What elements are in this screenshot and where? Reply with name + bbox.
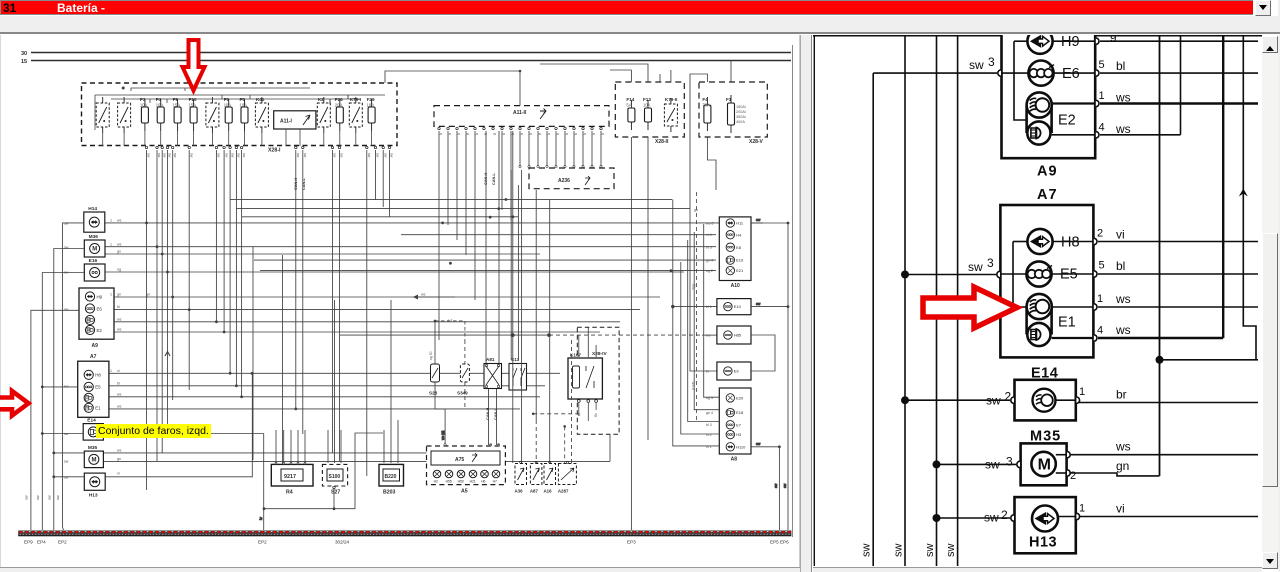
svg-text:H13: H13 xyxy=(1029,535,1057,551)
svg-text:sw: sw xyxy=(756,442,761,446)
labels sw3 / colors at A9 xyxy=(969,28,1131,136)
indicator H13 xyxy=(1011,497,1085,553)
svg-text:H21: H21 xyxy=(470,480,476,484)
svg-text:g: g xyxy=(538,133,542,135)
svg-text:CAN-L: CAN-L xyxy=(302,178,306,190)
svg-text:ws: ws xyxy=(117,219,122,223)
gray strip under title xyxy=(0,16,1280,32)
svg-text:bl: bl xyxy=(706,370,709,374)
wire ws pin1 E1 xyxy=(1098,306,1258,308)
wire (X28-II feeds) xyxy=(540,64,671,530)
svg-text:sw: sw xyxy=(340,153,344,158)
svg-text:bl: bl xyxy=(1116,259,1125,273)
fuse F1 xyxy=(726,95,747,133)
svg-text:3: 3 xyxy=(987,256,994,270)
wire (A11-II to A236 verticals) xyxy=(519,131,602,168)
svg-text:10A: 10A xyxy=(643,103,651,108)
svg-text:g: g xyxy=(583,133,587,135)
svg-text:g: g xyxy=(466,133,470,135)
headlamp E1 in A7 xyxy=(1027,294,1095,346)
wire sw3 to M35 xyxy=(933,460,1017,468)
svg-text:K79-I: K79-I xyxy=(350,97,361,102)
indicator H8 in A7 xyxy=(1013,229,1095,307)
svg-text:5: 5 xyxy=(1099,59,1105,71)
svg-text:A236: A236 xyxy=(558,178,570,184)
svg-text:B220: B220 xyxy=(385,474,397,480)
wire ge from H9 xyxy=(1100,40,1258,42)
resistor R4 (9217) xyxy=(271,464,313,495)
svg-text:E18: E18 xyxy=(736,410,744,415)
svg-text:1: 1 xyxy=(110,242,112,246)
wire (X28-V feeds) xyxy=(690,61,731,209)
svg-text:E20: E20 xyxy=(736,396,744,401)
right vertical scrollbar xyxy=(1262,36,1278,566)
svg-text:S28: S28 xyxy=(429,391,438,396)
fuse F9 15A xyxy=(173,97,182,131)
svg-text:10A: 10A xyxy=(140,103,148,108)
svg-text:1: 1 xyxy=(1079,386,1085,398)
svg-text:sw: sw xyxy=(303,153,307,158)
svg-text:sw: sw xyxy=(367,153,371,158)
wire (zoom view frame left) xyxy=(813,35,815,566)
svg-text:350A/: 350A/ xyxy=(736,115,747,119)
control unit A11-I xyxy=(274,111,316,129)
svg-text:ws: ws xyxy=(117,405,122,409)
svg-text:A7: A7 xyxy=(1037,187,1058,203)
svg-text:gn: gn xyxy=(1116,459,1129,473)
labels sw3 / colors at A7 xyxy=(968,228,1131,338)
svg-text:M36: M36 xyxy=(89,234,99,240)
svg-text:3: 3 xyxy=(1006,455,1013,469)
svg-text:og: og xyxy=(594,413,598,417)
sensor B203 (B220) xyxy=(379,464,404,495)
svg-text:sw: sw xyxy=(217,153,221,158)
svg-text:g: g xyxy=(529,133,533,135)
lamps H2..H7 inside A5 xyxy=(433,470,500,483)
svg-text:g: g xyxy=(520,133,524,135)
svg-text:M: M xyxy=(91,458,96,464)
svg-text:X28-V: X28-V xyxy=(749,139,764,145)
connector box X28-I (fuse/relay carrier) xyxy=(82,83,398,146)
wire (E9 feed from F4) xyxy=(690,209,717,371)
wire (fusebox internal bus) xyxy=(95,87,385,130)
svg-text:ws: ws xyxy=(117,449,122,453)
wire bundle from X28-I descending xyxy=(147,150,390,490)
wire ws pin4 E1 (thick) xyxy=(1098,337,1223,339)
svg-text:sw: sw xyxy=(892,544,904,558)
headlamp assembly A9 box xyxy=(1002,35,1096,180)
pins A9 right edge xyxy=(998,38,1105,138)
svg-text:sw: sw xyxy=(861,544,873,558)
svg-text:5: 5 xyxy=(1099,260,1105,272)
svg-text:ws: ws xyxy=(117,328,122,332)
svg-text:H8: H8 xyxy=(1061,235,1080,251)
svg-text:br: br xyxy=(259,516,263,520)
assembly A8 (E20,E18,E7,H3,H110) xyxy=(719,388,751,463)
svg-text:E10: E10 xyxy=(734,304,742,309)
lamp E6 in A9 xyxy=(1001,61,1095,86)
pins A7 right edge xyxy=(997,228,1105,342)
wire (right column sw drops) xyxy=(751,218,788,530)
wire vi from H13 xyxy=(1077,516,1258,518)
indicator H9 in A9 xyxy=(1014,29,1095,120)
svg-text:H8: H8 xyxy=(95,373,101,378)
wire (A.T dashed link S28-S349) xyxy=(434,320,465,340)
svg-text:E8: E8 xyxy=(736,245,742,250)
svg-text:sw: sw xyxy=(333,153,337,158)
svg-text:ws: ws xyxy=(1115,323,1131,337)
svg-text:sw: sw xyxy=(756,302,761,306)
svg-text:A81: A81 xyxy=(486,357,495,362)
motor M35 xyxy=(1017,429,1076,486)
node A11-II pin row xyxy=(438,127,605,135)
right pane schematic xyxy=(813,0,1262,572)
svg-text:sw: sw xyxy=(224,153,228,158)
svg-text:15A: 15A xyxy=(189,103,197,108)
relay K40 (small dashed relay) xyxy=(206,97,219,133)
svg-text:sw: sw xyxy=(969,58,984,72)
relay K79-I xyxy=(349,97,362,133)
relay K41 xyxy=(255,97,268,133)
svg-text:E14: E14 xyxy=(87,418,96,424)
svg-text:4: 4 xyxy=(1097,325,1103,337)
wire (A5 top pins) xyxy=(435,409,500,446)
svg-text:H110: H110 xyxy=(736,444,746,449)
labels sw3 / ws gn at M35 xyxy=(985,440,1131,474)
svg-text:A9: A9 xyxy=(1037,164,1058,180)
wire vertical (right) x1243 with up arrow xyxy=(1239,36,1256,360)
svg-text:200A/: 200A/ xyxy=(736,110,747,114)
svg-text:A5: A5 xyxy=(461,489,468,495)
assembly A10 (H11,H4,E8,E19,E21) xyxy=(719,217,751,289)
title bar red xyxy=(0,0,1253,15)
svg-text:2: 2 xyxy=(1005,390,1012,404)
wire sw2 to E14 xyxy=(901,396,1010,404)
svg-text:E6: E6 xyxy=(1062,66,1080,82)
svg-text:og: og xyxy=(117,268,121,272)
svg-text:sw: sw xyxy=(783,483,787,488)
svg-text:EP2: EP2 xyxy=(258,540,267,545)
svg-text:g: g xyxy=(556,133,560,135)
svg-text:1: 1 xyxy=(1099,90,1105,102)
svg-text:sw: sw xyxy=(168,153,172,158)
svg-text:ws: ws xyxy=(1115,440,1131,454)
wire (R4 top pins) xyxy=(275,430,306,464)
wire br from E14 xyxy=(1077,402,1258,404)
svg-text:A87: A87 xyxy=(530,489,539,494)
svg-text:vi: vi xyxy=(117,472,120,476)
pin labels sw at left components xyxy=(64,222,69,480)
svg-text:EP2: EP2 xyxy=(58,540,67,545)
svg-text:gn 4: gn 4 xyxy=(706,259,713,263)
svg-text:30: 30 xyxy=(21,51,27,57)
wire color labels under X28-I xyxy=(147,153,394,158)
svg-text:F1: F1 xyxy=(726,97,732,102)
fuse F4 70A xyxy=(702,97,711,131)
left pane border lines xyxy=(0,35,1,572)
svg-text:sw: sw xyxy=(390,153,394,158)
connector box X28-V (F4,F1) xyxy=(699,82,767,145)
svg-text:gn: gn xyxy=(117,457,121,461)
svg-text:20A: 20A xyxy=(335,103,343,108)
fuse F5 10A xyxy=(240,97,249,131)
bottom horizontal scrollbars xyxy=(0,567,800,572)
svg-text:F13: F13 xyxy=(643,97,651,102)
svg-text:A8: A8 xyxy=(731,457,738,463)
wire (left ground drops) xyxy=(31,223,84,530)
svg-text:A16: A16 xyxy=(544,489,553,494)
svg-text:bl 3: bl 3 xyxy=(706,423,712,427)
connector A236 xyxy=(529,168,614,189)
wire (S27 pins) xyxy=(328,300,341,509)
fog lamp E14 xyxy=(1011,366,1085,421)
wire sw3 to A7 xyxy=(901,271,996,279)
svg-text:bl 5: bl 5 xyxy=(706,246,712,250)
left pane schematic xyxy=(0,0,800,566)
net CAN-H / CAN-L xyxy=(294,173,498,420)
svg-text:S100: S100 xyxy=(329,474,341,480)
wire (off-page arrow ws) xyxy=(146,208,698,300)
svg-text:H4: H4 xyxy=(736,232,742,237)
motor M35 xyxy=(84,445,103,468)
wire (bottom interconnects) xyxy=(252,373,610,530)
svg-text:sw: sw xyxy=(48,495,52,500)
pin labels at A10/A8 xyxy=(706,222,713,450)
fuse S28 xyxy=(429,321,440,409)
svg-text:sw: sw xyxy=(64,460,69,464)
splitter xyxy=(800,35,812,572)
annotation red arrow (left, pointing right at A7) xyxy=(0,391,29,416)
wire ws pin4 E2 xyxy=(1100,134,1181,136)
svg-text:bl 1: bl 1 xyxy=(706,305,712,309)
svg-text:S27: S27 xyxy=(331,490,340,496)
lamp E10 xyxy=(717,299,751,315)
svg-text:H6: H6 xyxy=(481,480,485,484)
svg-text:H7: H7 xyxy=(493,480,497,484)
svg-text:ws (gi): ws (gi) xyxy=(441,431,445,440)
svg-text:A36: A36 xyxy=(515,489,524,494)
headlamp assembly A7 box xyxy=(1000,187,1093,357)
svg-text:gn 4: gn 4 xyxy=(706,411,713,415)
annotation red arrow (pointing right at E1 in A7) xyxy=(923,287,1017,328)
svg-text:K79-II: K79-II xyxy=(665,97,678,102)
svg-text:br: br xyxy=(1116,388,1127,402)
svg-text:ws 6: ws 6 xyxy=(706,222,713,226)
fog lamp E14 xyxy=(83,418,103,441)
svg-text:M35: M35 xyxy=(88,445,98,451)
indicator H13 xyxy=(84,473,105,498)
svg-text:K41: K41 xyxy=(256,97,265,102)
svg-text:ws: ws xyxy=(1115,122,1131,136)
svg-text:E2: E2 xyxy=(1058,113,1076,129)
svg-text:sw: sw xyxy=(56,495,60,500)
headlamp E2 in A9 xyxy=(1027,92,1095,144)
svg-text:10A: 10A xyxy=(156,103,164,108)
svg-text:2: 2 xyxy=(1001,508,1008,522)
motor M36 xyxy=(84,234,105,257)
gateway A81 xyxy=(484,357,502,389)
wire ws pin1 E2 (thick) xyxy=(1100,102,1258,104)
svg-text:E2: E2 xyxy=(97,328,103,333)
relay K2 xyxy=(317,97,330,133)
svg-text:g: g xyxy=(592,133,596,135)
svg-text:70A: 70A xyxy=(702,103,710,108)
svg-text:F10: F10 xyxy=(189,97,197,102)
combo dropdown button xyxy=(1255,0,1271,16)
svg-text:A9: A9 xyxy=(92,343,99,349)
svg-text:F4: F4 xyxy=(156,97,162,102)
svg-text:H14: H14 xyxy=(88,206,97,212)
svg-text:EP3: EP3 xyxy=(627,540,636,545)
svg-text:H85: H85 xyxy=(734,333,742,338)
svg-text:15: 15 xyxy=(21,59,27,65)
svg-text:A11-I: A11-I xyxy=(280,119,293,125)
lamp H14 xyxy=(84,206,105,232)
svg-text:F9: F9 xyxy=(173,97,179,102)
svg-text:1: 1 xyxy=(1097,293,1103,305)
svg-text:A7: A7 xyxy=(90,354,97,360)
svg-text:sw: sw xyxy=(986,394,1001,408)
wire harness horizontal runs xyxy=(100,199,763,476)
svg-text:sw: sw xyxy=(147,153,151,158)
svg-text:vi: vi xyxy=(1116,502,1125,516)
svg-text:A75: A75 xyxy=(455,457,464,463)
svg-text:F6: F6 xyxy=(224,97,230,102)
svg-text:A11-II: A11-II xyxy=(513,110,527,116)
svg-text:g: g xyxy=(547,133,551,135)
svg-text:B203: B203 xyxy=(383,490,396,496)
svg-text:sw: sw xyxy=(383,153,387,158)
wire ws from M35 xyxy=(1068,454,1258,456)
svg-text:E19: E19 xyxy=(736,258,744,263)
svg-text:bl: bl xyxy=(577,413,581,416)
headlamp assembly A9 (H9,E6,E2) xyxy=(79,288,114,349)
svg-text:ws: ws xyxy=(706,334,711,338)
svg-text:sw: sw xyxy=(756,218,761,222)
pin color labels at left components xyxy=(110,219,122,476)
wire (frame right edge) xyxy=(792,45,794,537)
svg-text:EP9: EP9 xyxy=(24,540,33,545)
svg-text:sw: sw xyxy=(242,153,246,158)
svg-text:EP4: EP4 xyxy=(37,540,46,545)
wire (dashed option line Lhd) xyxy=(692,192,697,420)
svg-text:sw: sw xyxy=(64,475,69,479)
wire sw vertical 3 xyxy=(936,36,938,566)
svg-text:gn: gn xyxy=(694,208,698,212)
svg-text:ws: ws xyxy=(117,392,122,396)
svg-text:sw: sw xyxy=(157,153,161,158)
wire vertical (right) x1159.5 xyxy=(1159,36,1161,476)
svg-text:ws: ws xyxy=(421,293,426,297)
svg-text:sw: sw xyxy=(945,544,957,558)
svg-text:(Lhd): (Lhd) xyxy=(692,382,696,390)
svg-text:A287: A287 xyxy=(558,489,569,494)
svg-text:vi: vi xyxy=(117,369,120,373)
svg-text:302/24: 302/24 xyxy=(335,540,349,545)
wire sw vertical 4 xyxy=(957,36,959,566)
switch S27 (S100) xyxy=(322,464,347,495)
svg-text:g: g xyxy=(448,133,452,135)
svg-text:sw: sw xyxy=(189,153,193,158)
svg-text:E5: E5 xyxy=(1060,267,1078,283)
svg-text:sw: sw xyxy=(296,153,300,158)
svg-text:sw: sw xyxy=(376,153,380,158)
svg-text:sw: sw xyxy=(924,544,936,558)
svg-text:H9: H9 xyxy=(1061,34,1080,50)
svg-text:F5: F5 xyxy=(240,97,246,102)
svg-text:10A: 10A xyxy=(367,103,375,108)
labels sw2 / vi at H13 xyxy=(984,502,1125,525)
svg-text:E1: E1 xyxy=(95,406,101,411)
svg-text:H2: H2 xyxy=(434,480,438,484)
wire (A11-II descending) xyxy=(439,131,511,340)
wire (zoom view frame top) xyxy=(813,35,1262,37)
svg-text:E9: E9 xyxy=(734,369,740,374)
svg-text:sw: sw xyxy=(985,458,1000,472)
svg-text:og 2: og 2 xyxy=(706,269,713,273)
fuse F26 20A xyxy=(335,97,344,131)
fuse F14 5A xyxy=(626,97,635,130)
wire labels sw (bottom left) xyxy=(25,495,61,500)
connector box X28-II (F14,F13,K79-II) xyxy=(615,82,684,145)
svg-text:E7: E7 xyxy=(736,422,742,427)
svg-text:sw: sw xyxy=(162,153,166,158)
labels sw2 / br at E14 xyxy=(986,388,1127,408)
ground terminal labels EP xyxy=(24,540,789,545)
svg-text:g: g xyxy=(457,133,461,135)
svg-text:5A: 5A xyxy=(626,103,631,108)
svg-text:2: 2 xyxy=(1097,228,1103,240)
yellow tooltip highlight xyxy=(96,424,211,438)
svg-text:4: 4 xyxy=(1099,122,1105,134)
svg-text:E21: E21 xyxy=(736,268,744,273)
lamp E5 in A7 xyxy=(1000,261,1095,286)
relay K79-II xyxy=(664,97,677,132)
connector X28-IV with relay K167 xyxy=(532,327,619,463)
wire gn from M35 xyxy=(1068,473,1160,476)
svg-text:g: g xyxy=(493,133,497,135)
svg-text:CAN-L: CAN-L xyxy=(492,173,496,185)
svg-text:X28-II: X28-II xyxy=(655,139,669,145)
control unit A5 (A75) xyxy=(427,446,506,495)
svg-text:bl: bl xyxy=(1116,59,1125,73)
svg-text:CAN-L: CAN-L xyxy=(494,408,498,420)
node 15 (ignition bus) xyxy=(21,59,791,65)
svg-text:150A/: 150A/ xyxy=(736,105,747,109)
annotation red arrow (top, pointing down at F10) xyxy=(183,40,205,91)
svg-text:F14: F14 xyxy=(626,97,634,102)
wire (A11-II feed from top) xyxy=(385,71,520,106)
svg-text:sw: sw xyxy=(774,483,778,488)
svg-text:gn: gn xyxy=(117,250,121,254)
svg-text:10A: 10A xyxy=(240,103,248,108)
wire (S13/X28-IV/connector risers) xyxy=(486,131,596,463)
fuse S349 (dashed) xyxy=(447,319,469,408)
fuse F4 10A xyxy=(156,97,165,131)
svg-text:sw: sw xyxy=(237,153,241,158)
svg-text:ws: ws xyxy=(117,317,122,321)
svg-text:ws: ws xyxy=(117,242,122,246)
lamp E16 xyxy=(84,258,105,281)
svg-text:gn: gn xyxy=(146,293,150,297)
svg-text:g: g xyxy=(439,133,443,135)
svg-text:vi: vi xyxy=(1116,228,1125,242)
svg-text:1: 1 xyxy=(110,293,112,297)
control unit A11-II xyxy=(434,106,609,127)
wire continuation caret xyxy=(165,352,170,357)
svg-text:X28-IV: X28-IV xyxy=(592,351,607,357)
svg-text:F3: F3 xyxy=(140,97,146,102)
